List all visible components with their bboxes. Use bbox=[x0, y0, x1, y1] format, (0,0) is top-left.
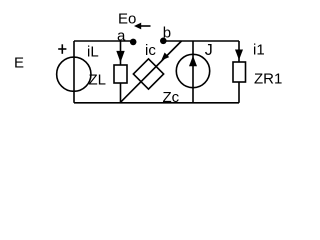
arrow inside current source bbox=[189, 56, 197, 67]
svg-text:ZL: ZL bbox=[89, 72, 107, 89]
svg-text:Zc: Zc bbox=[163, 89, 180, 106]
svg-text:E: E bbox=[14, 55, 24, 72]
wire current source lead bbox=[192, 41, 194, 103]
impedance Zc diamond bbox=[133, 59, 163, 89]
resistor ZL bbox=[114, 65, 127, 83]
svg-text:iL: iL bbox=[87, 43, 99, 60]
svg-text:a: a bbox=[117, 27, 126, 44]
wire Zc diagonal branch bbox=[120, 41, 182, 103]
svg-text:J: J bbox=[205, 42, 213, 59]
wire top rail right segment bbox=[163, 40, 239, 42]
svg-text:i1: i1 bbox=[253, 41, 265, 58]
node a dot bbox=[130, 39, 137, 46]
arrow Eo pointing left bbox=[134, 23, 151, 30]
svg-text:ic: ic bbox=[145, 42, 156, 59]
wire top rail left segment bbox=[74, 40, 133, 42]
node b dot bbox=[160, 38, 167, 45]
wire right lead lower bbox=[238, 82, 240, 103]
arrow i1 current bbox=[235, 50, 243, 61]
wire right lead upper bbox=[238, 41, 240, 62]
wire left lead through source bbox=[73, 41, 75, 103]
plus polarity mark bbox=[58, 44, 66, 54]
resistor ZR1 bbox=[233, 62, 246, 82]
voltage source E circle bbox=[57, 57, 91, 91]
arrow ic current bbox=[161, 53, 169, 61]
wire ZL branch lower bbox=[120, 83, 122, 103]
svg-text:b: b bbox=[163, 25, 171, 42]
wire bottom rail bbox=[74, 102, 239, 104]
svg-text:Eo: Eo bbox=[118, 11, 136, 28]
current source J circle bbox=[176, 54, 209, 87]
svg-text:ZR1: ZR1 bbox=[254, 70, 282, 87]
arrow iL current bbox=[116, 51, 124, 63]
wire ZL branch upper bbox=[120, 41, 122, 65]
